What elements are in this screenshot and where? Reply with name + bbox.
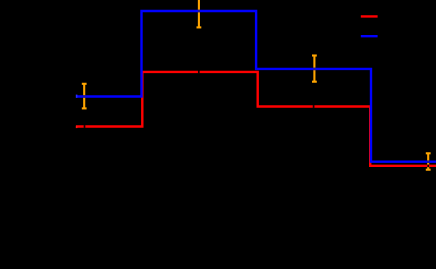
blend notch on blue line at E1 crossing [83,95,85,98]
blend notch on blue line at E4 crossing [427,160,429,163]
red line start stub [76,126,78,129]
red step line [76,72,436,166]
legend sample: red line [361,15,378,17]
error bar E3 (orange, bin 3) [312,56,317,82]
blend notch on blue line at E3 crossing [313,68,315,71]
black notch on red line at E2 x [198,71,200,74]
blue line start stub [76,95,78,98]
black notch on red line at E3 x [313,105,315,108]
black notch on red line at E4 x [427,165,429,168]
black notch on red line at E1 x [84,125,86,128]
error bar E1 (orange, bin 1) [82,84,87,109]
blue step line [76,11,436,162]
error bar E4 (orange, bin 4) [426,153,431,169]
blend notch on blue line at E2 crossing [198,10,200,13]
legend sample: blue line [361,35,378,37]
error bar E2 (orange, bin 2, top clipped) [197,0,202,27]
